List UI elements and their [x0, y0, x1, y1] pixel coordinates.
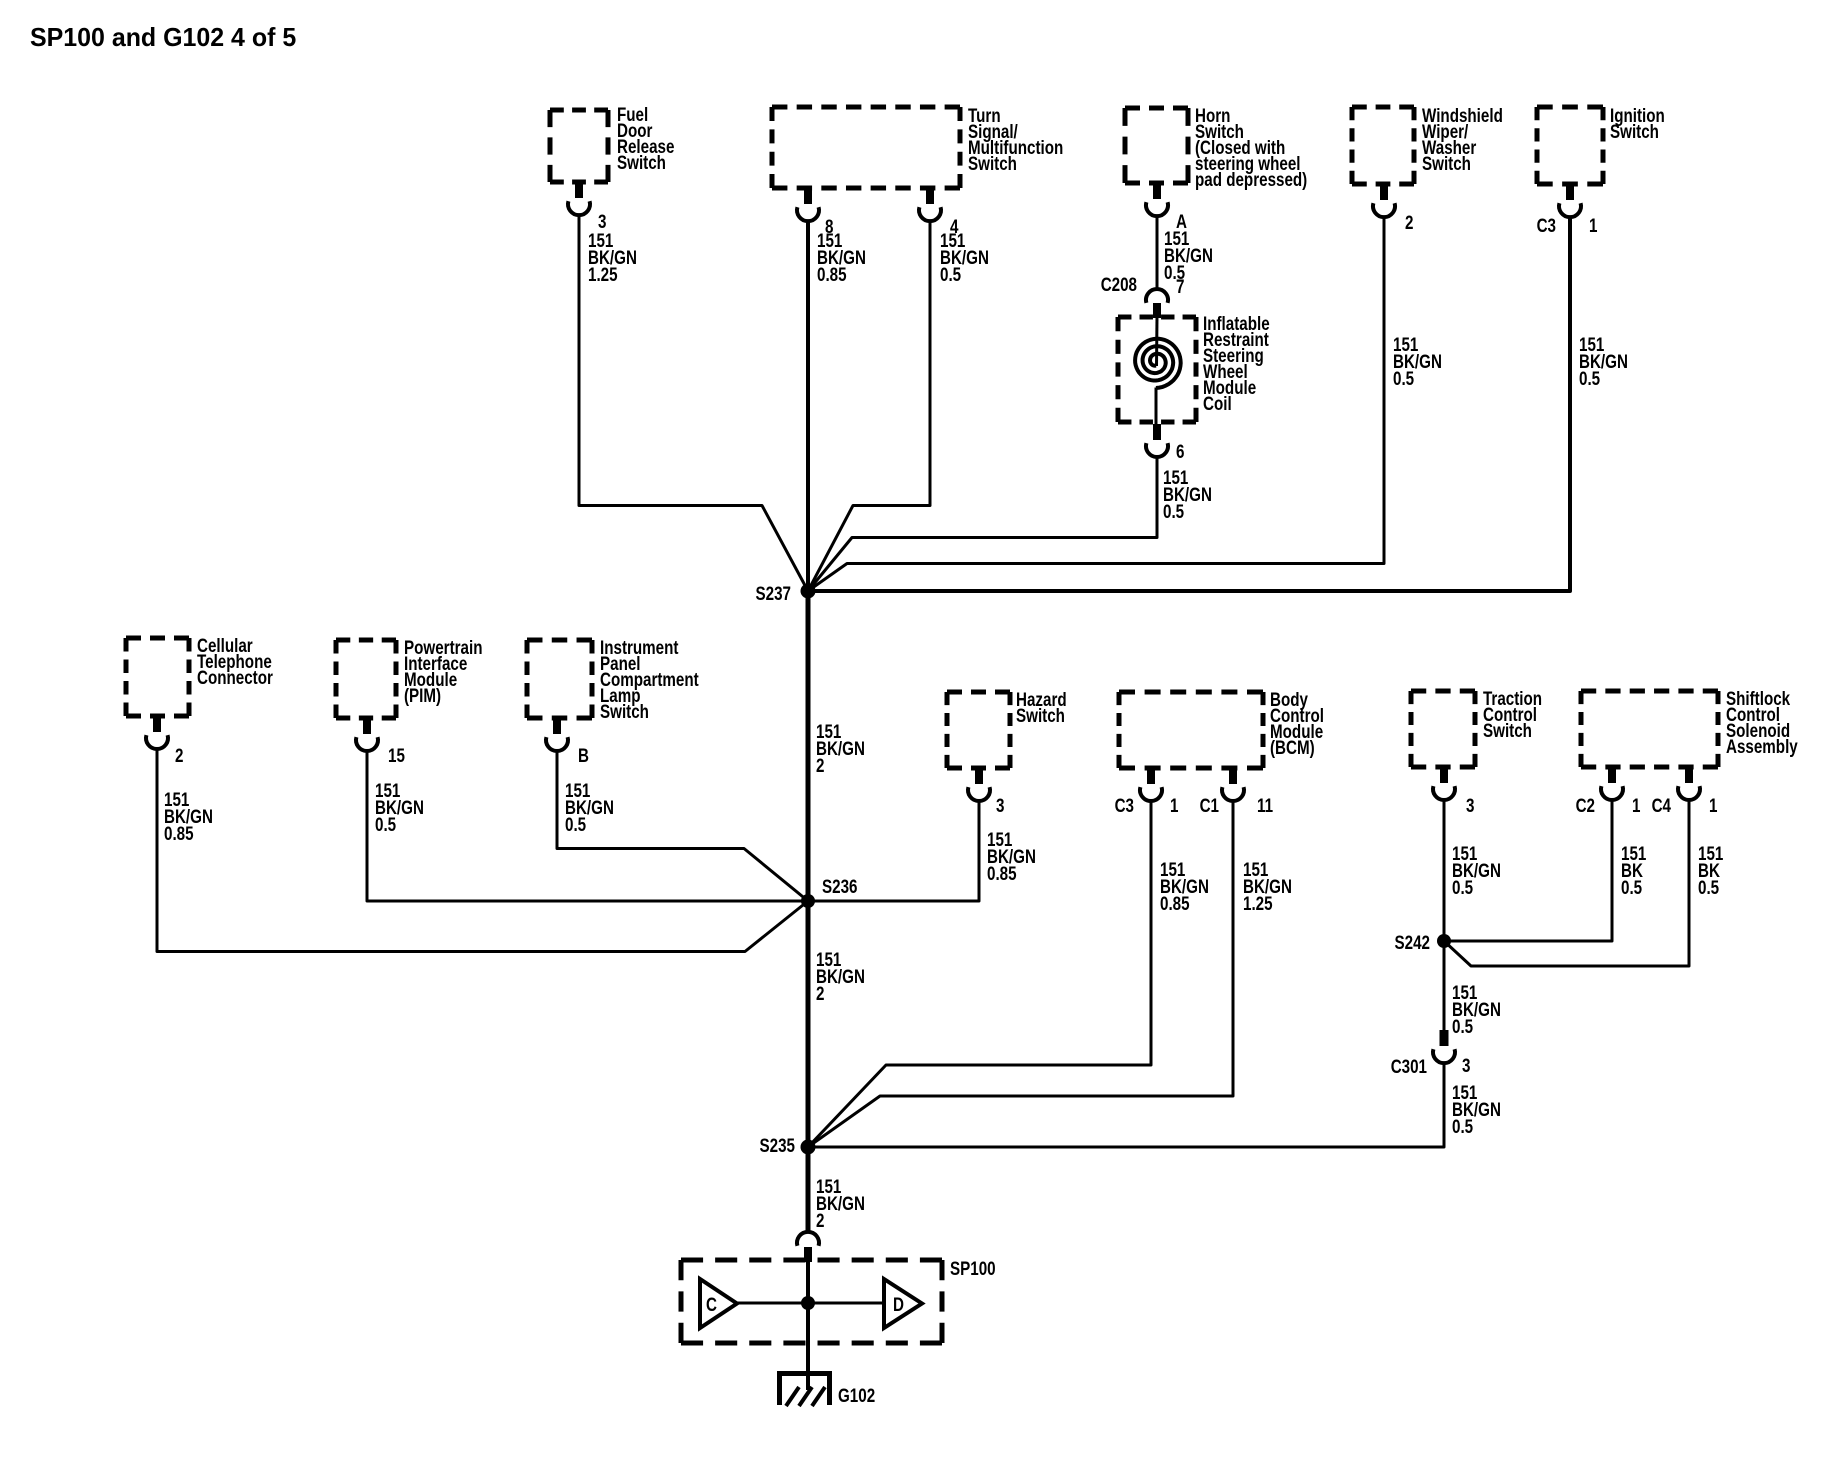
wire 151 BK/GN 1.25 from fuel door release switch pin 3 to S237	[579, 215, 808, 591]
svg-text:0.5: 0.5	[1579, 367, 1600, 389]
pin 4 of Turn Signal/Multifunction Switch	[926, 187, 934, 204]
wire 151 BK/GN 2 trunk S236 to S235	[806, 901, 811, 1147]
svg-text:C2: C2	[1576, 794, 1595, 816]
svg-text:1: 1	[1170, 794, 1179, 816]
pin 2 of Windshield Wiper/Washer Switch	[1380, 183, 1388, 200]
ground G102 symbol	[780, 1374, 830, 1406]
svg-text:Switch: Switch	[600, 700, 649, 722]
pin 3 of Fuel Door Release Switch	[575, 181, 583, 198]
wire from coil to bottom pin	[1155, 388, 1158, 425]
splice S236	[801, 894, 815, 908]
svg-text:2: 2	[816, 1209, 824, 1231]
splice S235	[801, 1140, 816, 1155]
svg-text:B: B	[578, 744, 589, 766]
svg-text:1: 1	[1589, 214, 1598, 236]
wire 151 BK/GN 0.5 from PIM pin 15 to S236	[367, 751, 808, 901]
svg-text:2: 2	[175, 744, 183, 766]
svg-text:0.5: 0.5	[565, 813, 586, 835]
connector box: Ignition Switch	[1537, 105, 1603, 110]
pin 15 of Powertrain Interface Module	[363, 717, 371, 734]
svg-text:Switch: Switch	[1422, 152, 1471, 174]
svg-text:2: 2	[1405, 211, 1413, 233]
connector box: Traction Control Switch	[1411, 689, 1475, 694]
svg-text:(PIM): (PIM)	[404, 684, 441, 706]
pin 3 of Hazard Switch	[975, 767, 983, 784]
pin B of Instrument Panel Compartment Lamp Switch	[553, 717, 561, 734]
svg-text:0.5: 0.5	[1452, 1115, 1473, 1137]
svg-text:3: 3	[1462, 1054, 1470, 1076]
svg-text:7: 7	[1176, 275, 1184, 297]
svg-text:2: 2	[816, 982, 824, 1004]
svg-text:Switch: Switch	[1016, 704, 1065, 726]
connector box: Shiftlock Control Solenoid Assembly	[1581, 689, 1718, 694]
wire 151 BK/GN 0.5 from coil pin 6 to S237	[808, 457, 1157, 591]
svg-text:3: 3	[996, 794, 1004, 816]
svg-text:C3: C3	[1115, 794, 1134, 816]
wire 151 BK/GN 1.25 from BCM pin C1-11 to S235	[808, 801, 1233, 1147]
connector box: Turn Signal/Multifunction Switch	[772, 105, 960, 110]
connector C301 pin 3 (inline connector)	[1440, 1030, 1449, 1046]
svg-text:1: 1	[1632, 794, 1641, 816]
svg-text:0.5: 0.5	[1621, 876, 1642, 898]
wire 151 BK/GN 2 trunk S237 to S236	[806, 591, 811, 901]
connector box: Body Control Module (BCM)	[1119, 690, 1263, 695]
pin C3 1 of BCM	[1147, 767, 1155, 784]
wire 151 BK 0.5 from shiftlock pin C2-1 to S242	[1444, 800, 1612, 941]
svg-text:G102: G102	[838, 1384, 875, 1406]
terminal triangle D	[884, 1279, 922, 1328]
wire 151 BK/GN 0.5 from horn switch pin A to connector C208	[1156, 216, 1159, 290]
SP100 internal bus wire C to D	[737, 1302, 884, 1305]
wire 151 BK/GN 0.5 from C301 to S235	[808, 1063, 1444, 1147]
svg-text:0.5: 0.5	[1393, 367, 1414, 389]
wire 151 BK/GN 0.5 from turn signal switch pin 4 to S237	[808, 221, 930, 591]
pin 6 of coil (bottom)	[1153, 424, 1161, 440]
svg-text:C208: C208	[1101, 273, 1138, 295]
wire 151 BK/GN 0.85 from hazard switch pin 3 to S236	[808, 801, 979, 901]
svg-text:SP100 and G102 4 of 5: SP100 and G102 4 of 5	[30, 24, 296, 53]
connector box: Inflatable Restraint Steering Wheel Module Coil	[1118, 315, 1196, 320]
svg-text:Switch: Switch	[968, 152, 1017, 174]
svg-text:15: 15	[388, 744, 405, 766]
SP100 internal bus junction	[801, 1296, 815, 1310]
svg-text:0.85: 0.85	[817, 263, 847, 285]
svg-text:1: 1	[1709, 794, 1718, 816]
wire 151 BK/GN 0.5 from ignition switch to S237	[808, 217, 1570, 591]
connector box: Hazard Switch	[947, 690, 1010, 695]
svg-text:0.5: 0.5	[940, 263, 961, 285]
svg-text:0.85: 0.85	[164, 822, 194, 844]
svg-text:C1: C1	[1200, 794, 1220, 816]
svg-text:C301: C301	[1391, 1055, 1428, 1077]
wire 151 BK/GN 0.5 from lamp switch pin B to S236	[557, 751, 808, 901]
svg-text:0.85: 0.85	[1160, 892, 1190, 914]
svg-text:1.25: 1.25	[1243, 892, 1273, 914]
svg-text:0.5: 0.5	[1698, 876, 1719, 898]
svg-text:Switch: Switch	[1610, 120, 1659, 142]
pin C4 1 of Shiftlock Control Solenoid Assembly	[1685, 766, 1693, 783]
clockspring coil symbol inside module	[1135, 339, 1181, 388]
splice S242	[1437, 934, 1451, 948]
svg-text:Assembly: Assembly	[1726, 735, 1798, 757]
wire into coil from C208	[1155, 317, 1159, 366]
pin A of Horn Switch	[1153, 182, 1161, 199]
svg-text:Coil: Coil	[1203, 392, 1232, 414]
connector box: Windshield Wiper/Washer Switch	[1352, 105, 1414, 110]
pin 8 of Turn Signal/Multifunction Switch	[804, 187, 812, 204]
svg-text:S236: S236	[822, 875, 857, 897]
svg-text:2: 2	[816, 754, 824, 776]
svg-text:0.5: 0.5	[375, 813, 396, 835]
pin 3 of Traction Control Switch	[1440, 766, 1448, 783]
svg-text:S242: S242	[1395, 931, 1430, 953]
wire 151 BK/GN 0.85 from turn signal switch pin 8 down to S237 (main trunk upper)	[806, 221, 810, 591]
splice pack SP100 box	[681, 1258, 942, 1263]
svg-text:pad depressed): pad depressed)	[1195, 168, 1307, 190]
splice S237	[801, 584, 816, 599]
connector box: Horn Switch (Closed with steering wheel pad depressed)	[1125, 106, 1188, 111]
svg-text:Connector: Connector	[197, 666, 273, 688]
wire 151 BK/GN 0.5 from windshield wiper switch pin 2 to S237	[808, 217, 1384, 591]
connector box: Fuel Door Release Switch	[550, 108, 608, 113]
pin C1 11 of BCM	[1229, 767, 1237, 784]
wire 151 BK/GN 2 trunk S235 to SP100	[806, 1147, 811, 1233]
svg-text:0.5: 0.5	[1452, 876, 1473, 898]
pin C2 1 of Shiftlock Control Solenoid Assembly	[1608, 766, 1616, 783]
svg-text:SP100: SP100	[950, 1257, 996, 1279]
wire 151 BK/GN 0.5 from traction control switch pin 3 to S242	[1443, 800, 1446, 941]
wire 151 BK/GN 0.5 from S242 to C301	[1443, 941, 1446, 1031]
svg-text:C4: C4	[1652, 794, 1672, 816]
connector box: Instrument Panel Compartment Lamp Switch	[527, 638, 592, 643]
svg-text:C: C	[706, 1293, 717, 1315]
connector box: Cellular Telephone Connector	[126, 636, 189, 641]
svg-text:S237: S237	[756, 582, 791, 604]
svg-text:3: 3	[1466, 794, 1474, 816]
svg-text:0.85: 0.85	[987, 862, 1017, 884]
svg-text:1.25: 1.25	[588, 263, 618, 285]
terminal triangle C	[700, 1279, 737, 1328]
svg-text:0.5: 0.5	[1452, 1015, 1473, 1037]
svg-text:C3: C3	[1537, 214, 1556, 236]
svg-text:11: 11	[1257, 794, 1273, 816]
wire 151 BK/GN 0.85 from BCM pin C3-1 to S235	[808, 801, 1151, 1147]
wire 151 BK 0.5 from shiftlock pin C4-1 to S242	[1444, 800, 1689, 966]
svg-text:Switch: Switch	[1483, 719, 1532, 741]
pin 2 of Cellular Telephone Connector	[153, 715, 161, 732]
svg-text:0.5: 0.5	[1163, 500, 1184, 522]
svg-text:D: D	[893, 1293, 904, 1315]
pin C3 1 of Ignition Switch	[1566, 183, 1574, 200]
wire through SP100 to ground	[806, 1262, 810, 1390]
connector box: Powertrain Interface Module (PIM)	[336, 638, 396, 643]
svg-text:6: 6	[1176, 440, 1184, 462]
inline connector at SP100	[797, 1232, 819, 1246]
svg-text:Switch: Switch	[617, 151, 666, 173]
svg-text:S235: S235	[760, 1134, 796, 1156]
svg-text:(BCM): (BCM)	[1270, 736, 1315, 758]
wire 151 BK/GN 0.85 from cellular telephone connector to S236	[157, 749, 808, 952]
